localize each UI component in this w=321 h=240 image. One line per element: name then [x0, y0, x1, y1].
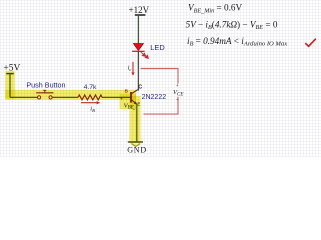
resistor R1 zigzag — [78, 95, 102, 100]
svg-text:5V − iB(4.7kΩ) − VBE = 0: 5V − iB(4.7kΩ) − VBE = 0 — [186, 19, 278, 31]
LED D1 — [132, 44, 144, 52]
wire push button to resistor — [52, 96, 78, 98]
svg-text:VBE_Min = 0.6V: VBE_Min = 0.6V — [188, 3, 243, 15]
highlighter stroke on emitter wire to ground — [130, 96, 141, 143]
svg-text:2N2222: 2N2222 — [142, 94, 167, 101]
+12V power bar — [135, 14, 146, 16]
transistor Q1 2N2222 — [131, 89, 138, 104]
highlighter stroke on +5V supply — [5, 71, 15, 99]
base current arrow — [81, 101, 100, 104]
svg-text:GND: GND — [127, 146, 147, 155]
svg-text:C: C — [138, 85, 142, 91]
highlighter blob on Vbe annotation — [120, 94, 137, 109]
LED light emission arrows — [141, 52, 149, 59]
push button S1 — [36, 90, 53, 99]
svg-text:ic: ic — [128, 64, 132, 72]
wire emitter to ground — [136, 104, 138, 142]
wire LED cathode to collector node — [137, 51, 139, 90]
highlighter taper below ground bar — [130, 143, 141, 148]
+5V power bar — [6, 73, 14, 75]
ground symbol — [128, 142, 143, 146]
wire +5V to push button — [10, 96, 37, 98]
highlighter stroke on base wire — [5, 90, 136, 100]
svg-text:+12V: +12V — [129, 5, 150, 15]
wire +12V to LED anode — [137, 15, 139, 44]
Vce measurement loop (red) — [141, 68, 179, 114]
svg-text:Push Button: Push Button — [26, 81, 65, 90]
wire resistor to base — [102, 96, 131, 98]
wire +5V down — [9, 74, 11, 98]
collector current arrow — [131, 62, 134, 76]
svg-text:iB = 0.94mA < iArduino IO Max: iB = 0.94mA < iArduino IO Max — [187, 36, 287, 48]
svg-text:LED: LED — [150, 43, 164, 52]
red checkmark — [306, 39, 316, 46]
svg-text:iB: iB — [90, 105, 95, 113]
svg-text:-: - — [176, 97, 178, 103]
